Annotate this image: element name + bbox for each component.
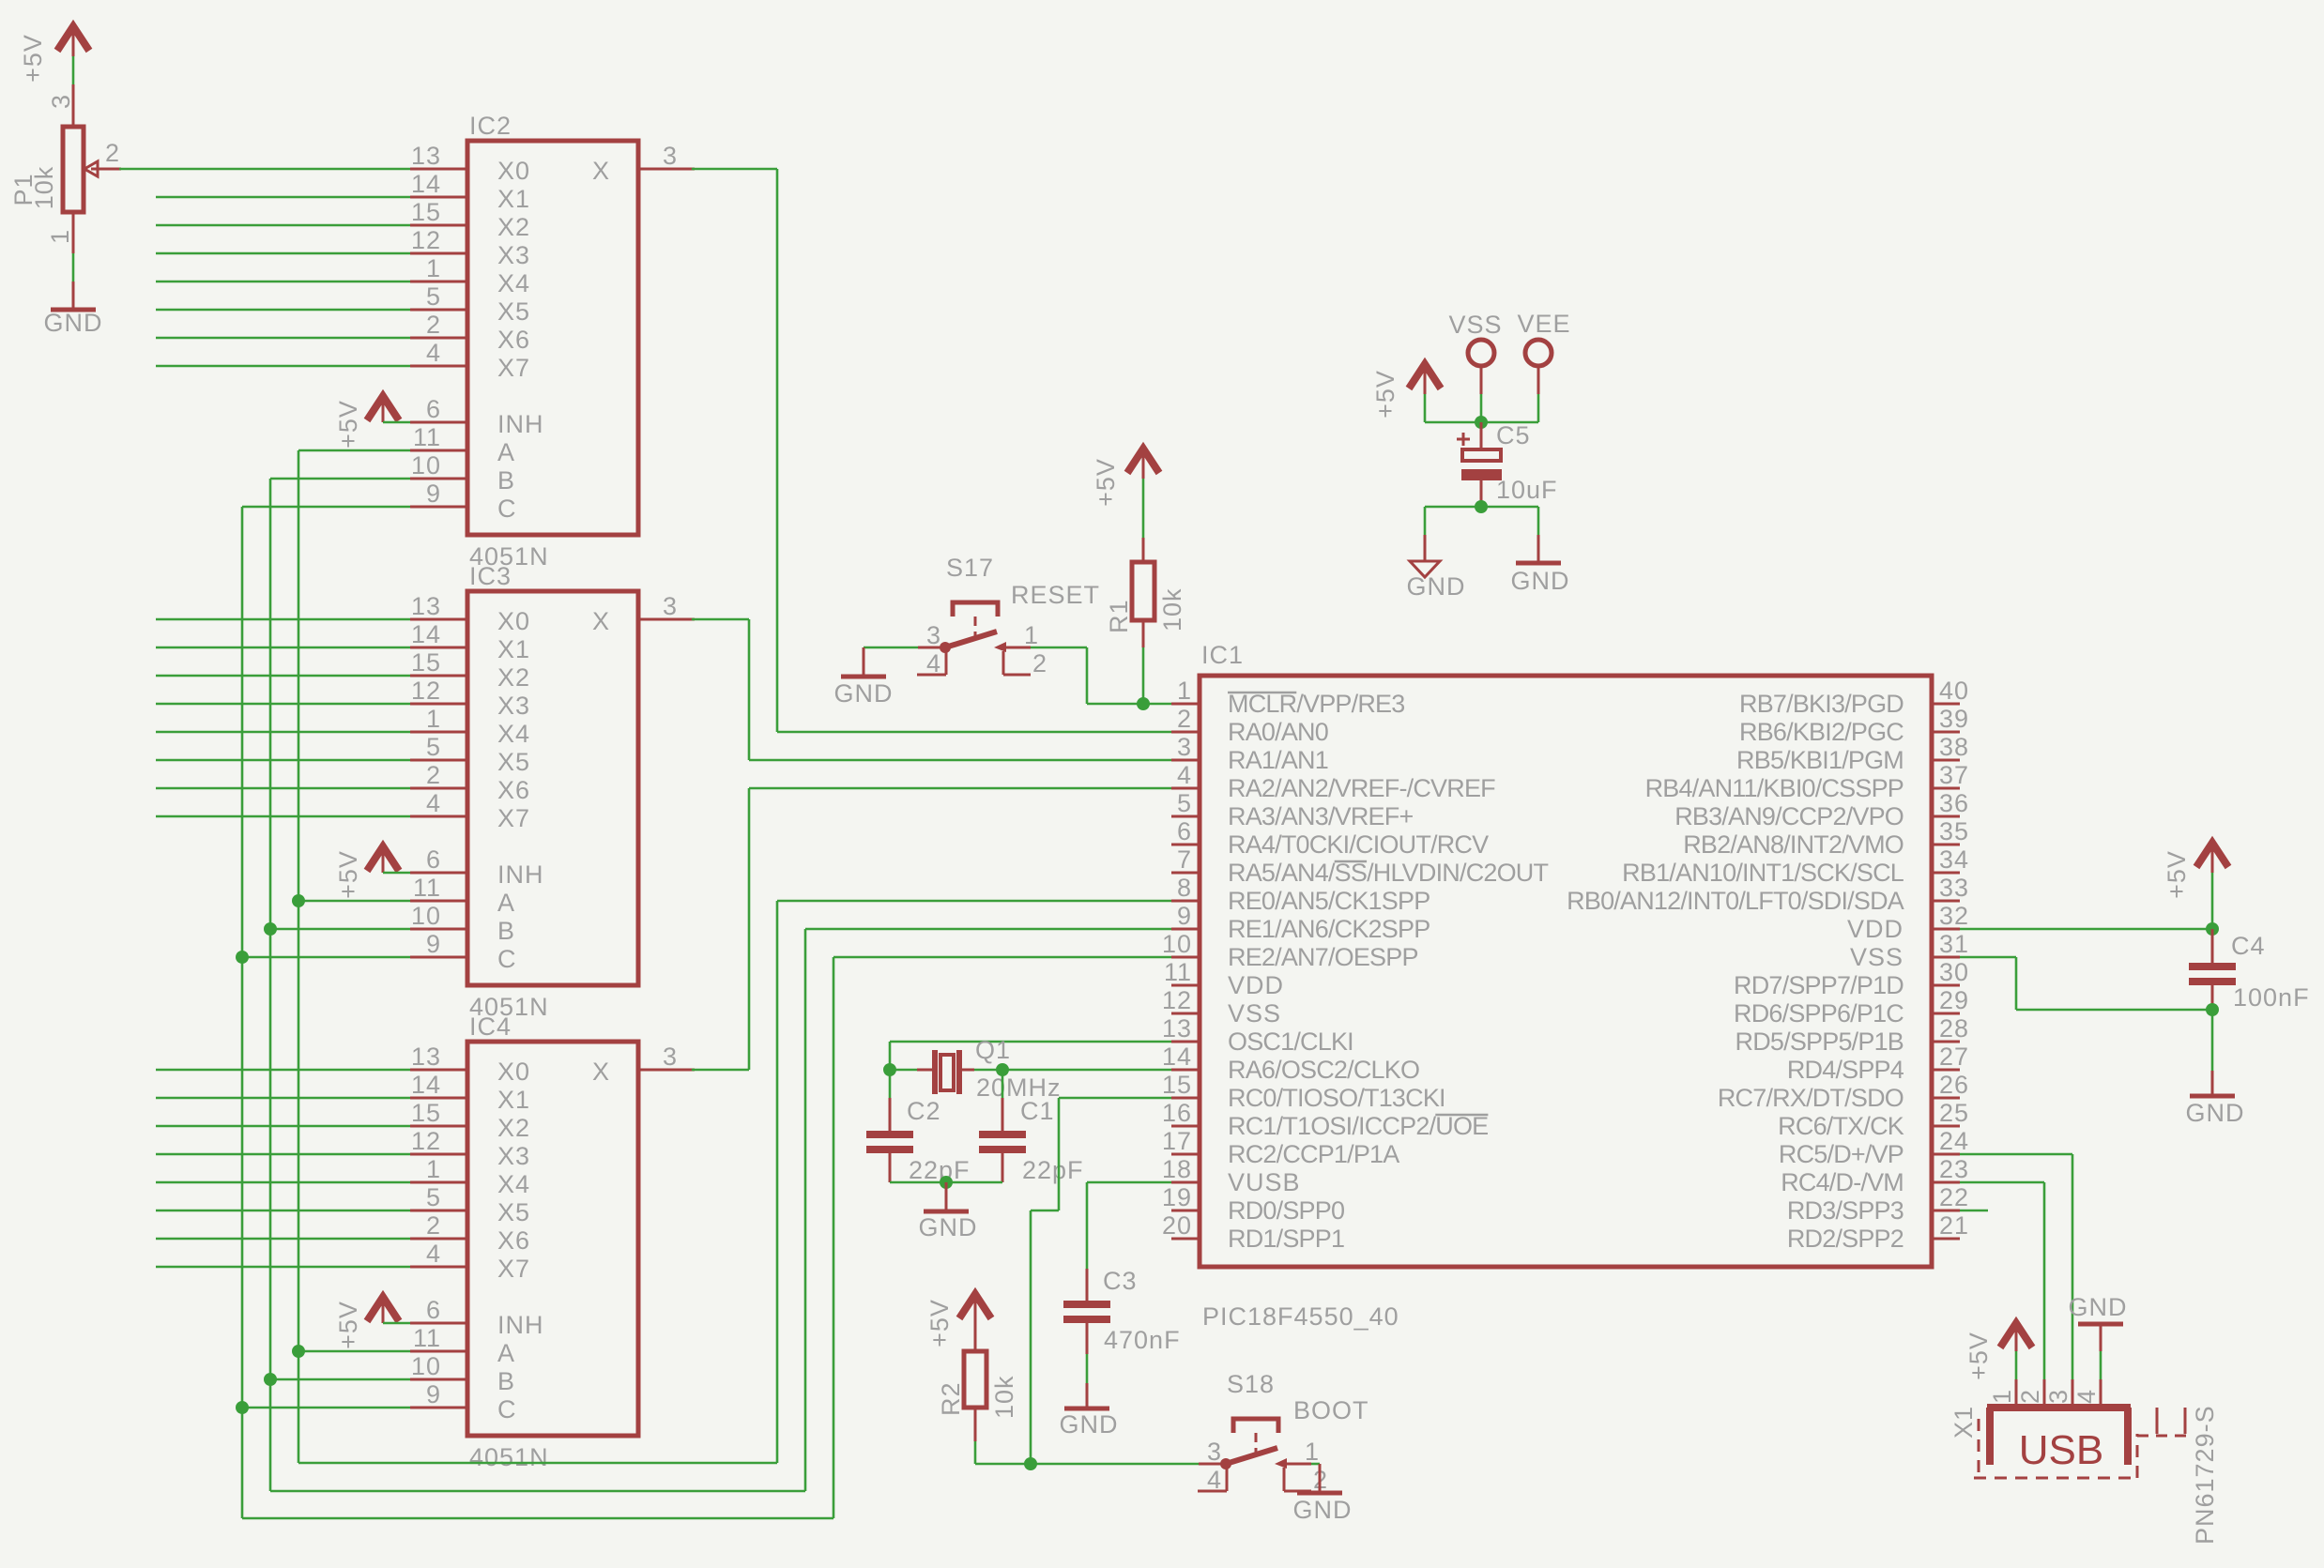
ground GND (USB) (2069, 1293, 2128, 1351)
svg-text:IC3: IC3 (469, 562, 512, 590)
svg-text:13: 13 (411, 1043, 441, 1071)
svg-text:X5: X5 (497, 748, 530, 776)
pin 12 (X3) (410, 226, 530, 269)
svg-text:RA6/OSC2/CLKO: RA6/OSC2/CLKO (1228, 1056, 1419, 1084)
svg-text:X5: X5 (497, 297, 530, 326)
pin 4 (X7) (410, 789, 530, 832)
node (C4 bottom) (2206, 1003, 2219, 1016)
svg-text:24: 24 (1939, 1127, 1969, 1155)
svg-text:RB3/AN9/CCP2/VPO: RB3/AN9/CCP2/VPO (1674, 802, 1904, 830)
svg-text:GND: GND (834, 679, 894, 708)
pin 5 (X5) (410, 1183, 530, 1226)
svg-text:15: 15 (411, 1099, 441, 1127)
pin 9 (C) (410, 480, 517, 523)
svg-text:15: 15 (411, 198, 441, 226)
svg-text:USB: USB (2019, 1427, 2103, 1473)
svg-text:2: 2 (1177, 705, 1192, 733)
pin 6 (RA4/T0CKI/CIOUT/RCV) (1171, 817, 1489, 859)
pin 1 (1287, 1438, 1320, 1466)
svg-text:10: 10 (411, 451, 441, 480)
pin 3 (X output) (592, 142, 695, 185)
wire (VSS/VEE/+5V to C5) (1425, 394, 1538, 422)
svg-text:GND: GND (1407, 572, 1466, 601)
pin 18 (VUSB) (1162, 1155, 1301, 1196)
svg-text:RC4/D-/VM: RC4/D-/VM (1781, 1168, 1904, 1196)
svg-text:+5V: +5V (1092, 458, 1120, 507)
pin 23 (RC4/D-/VM) (1781, 1155, 1969, 1196)
wire (RC5 D+ pin24 net) (1960, 1154, 2072, 1379)
pin 14 (X1) (410, 620, 530, 663)
svg-text:15: 15 (411, 648, 441, 677)
svg-text:RD2/SPP2: RD2/SPP2 (1787, 1225, 1904, 1253)
svg-text:S17: S17 (946, 554, 994, 582)
svg-text:9: 9 (426, 1380, 441, 1408)
svg-text:3: 3 (47, 94, 75, 109)
pin 37 (RB4/AN11/KBI0/CSSPP) (1645, 761, 1969, 802)
pin 40 (RB7/BKI3/PGD) (1739, 677, 1969, 718)
pin 10 (RE2/AN7/OESPP) (1162, 930, 1418, 971)
wire (RC0 pin15 net) (1031, 1098, 1171, 1464)
ground GND (bar) (1511, 535, 1570, 595)
pin 4 (X7) (410, 339, 530, 382)
svg-text:Q1: Q1 (975, 1036, 1011, 1064)
svg-text:32: 32 (1939, 902, 1969, 930)
svg-text:10uF: 10uF (1496, 476, 1558, 504)
svg-text:RC5/D+/VP: RC5/D+/VP (1779, 1140, 1904, 1168)
pin 1 (VBUS) (1988, 1379, 2016, 1408)
svg-text:RA2/AN2/VREF-/CVREF: RA2/AN2/VREF-/CVREF (1228, 774, 1495, 802)
node (C5 bottom junction) (1475, 500, 1488, 513)
svg-text:X3: X3 (497, 1142, 530, 1170)
svg-text:X1: X1 (497, 1086, 530, 1114)
svg-text:X4: X4 (497, 1170, 530, 1198)
svg-text:MCLR/VPP/RE3: MCLR/VPP/RE3 (1228, 690, 1404, 718)
svg-text:3: 3 (663, 142, 678, 170)
svg-text:X5: X5 (497, 1198, 530, 1226)
svg-text:12: 12 (411, 677, 441, 705)
pin 5 (RA3/AN3/VREF+) (1171, 789, 1413, 830)
svg-text:4: 4 (426, 1240, 441, 1268)
pin 36 (RB3/AN9/CCP2/VPO) (1674, 789, 1969, 830)
pin 3 (X output) (592, 592, 695, 635)
svg-text:VEE: VEE (1517, 310, 1570, 338)
svg-text:+5V: +5V (2163, 850, 2191, 899)
wire (P1 wiper to IC2 X0) (119, 168, 410, 171)
pin 4 (RA2/AN2/VREF-/CVREF) (1171, 761, 1495, 802)
svg-text:RC7/RX/DT/SDO: RC7/RX/DT/SDO (1718, 1084, 1904, 1112)
svg-text:23: 23 (1939, 1155, 1969, 1183)
IC IC3 (4051N) (410, 562, 695, 1021)
svg-text:6: 6 (1177, 817, 1192, 845)
svg-text:RD6/SPP6/P1C: RD6/SPP6/P1C (1734, 999, 1904, 1028)
switch S18 (1198, 1370, 1369, 1494)
pin 1 (MCLR/VPP/RE3) (1171, 677, 1404, 718)
pin 22 (RD3/SPP3) (1787, 1183, 1969, 1225)
pin 2 (X6) (410, 1211, 530, 1255)
svg-text:39: 39 (1939, 705, 1969, 733)
svg-text:40: 40 (1939, 677, 1969, 705)
svg-text:6: 6 (426, 845, 441, 874)
pin 16 (RC1/T1OSI/ICCP2/UOE) (1162, 1099, 1488, 1140)
node (C at IC3) (236, 951, 249, 964)
pin 15 (X2) (410, 648, 530, 692)
svg-text:30: 30 (1939, 958, 1969, 986)
svg-text:1: 1 (1988, 1389, 2016, 1404)
node (A at IC3) (292, 894, 305, 907)
pin 13 (OSC1/CLKI) (1162, 1014, 1353, 1056)
svg-text:12: 12 (411, 1127, 441, 1155)
svg-text:13: 13 (411, 142, 441, 170)
pin 5 (X5) (410, 733, 530, 776)
wire (IC3 INH net) (383, 872, 410, 875)
svg-text:RA1/AN1: RA1/AN1 (1228, 746, 1328, 774)
svg-text:10k: 10k (990, 1375, 1018, 1419)
pin 2 (D-) (2016, 1379, 2044, 1408)
wire (C1/C2 ground run) (890, 1181, 1002, 1184)
pin 28 (RD5/SPP5/P1B) (1735, 1014, 1970, 1056)
supply +5V (C4) (2163, 843, 2228, 899)
svg-text:C: C (497, 1395, 517, 1423)
svg-text:X3: X3 (497, 692, 530, 720)
pin 2 (X6) (410, 311, 530, 354)
svg-text:+5V: +5V (334, 1301, 362, 1349)
svg-text:+5V: +5V (1371, 370, 1399, 419)
svg-text:C1: C1 (1020, 1097, 1055, 1125)
capacitor C4 100nF (2189, 929, 2310, 1012)
wire (+5V to VDD junction) (2211, 873, 2214, 929)
svg-text:B: B (497, 466, 515, 495)
svg-text:X1: X1 (497, 635, 530, 663)
svg-text:INH: INH (497, 410, 544, 438)
node (XTAL1) (883, 1063, 896, 1076)
svg-text:C4: C4 (2231, 932, 2266, 960)
pin 3 (1199, 1438, 1226, 1466)
svg-text:11: 11 (1164, 958, 1192, 986)
svg-text:1: 1 (1177, 677, 1192, 705)
svg-text:X: X (592, 1058, 610, 1086)
svg-text:RA4/T0CKI/CIOUT/RCV: RA4/T0CKI/CIOUT/RCV (1228, 830, 1489, 859)
svg-text:14: 14 (411, 620, 441, 648)
pin 10 (B) (410, 902, 515, 945)
wire (R1 bottom to MCLR) (1142, 647, 1145, 704)
svg-text:22pF: 22pF (909, 1156, 971, 1184)
wire (VSS pin31 net) (1960, 957, 2212, 1010)
pin 6 (INH) (410, 845, 544, 889)
wire (VUSB pin18 net) (1087, 1182, 1171, 1269)
svg-text:B: B (497, 1367, 515, 1395)
pin 33 (RB0/AN12/INT0/LFT0/SDI/SDA) (1567, 874, 1969, 915)
svg-text:5: 5 (426, 282, 441, 311)
svg-text:VSS: VSS (1228, 999, 1281, 1028)
svg-text:GND: GND (44, 309, 103, 337)
wire (RD3 pin22 stub) (1960, 1210, 1988, 1212)
svg-text:10k: 10k (1158, 587, 1186, 632)
supply +5V (USB VBUS) (1965, 1323, 2032, 1380)
svg-text:+5V: +5V (925, 1299, 954, 1347)
pin 5 (X5) (410, 282, 530, 326)
wire (IC2 INH net) (383, 421, 410, 424)
svg-text:B: B (497, 917, 515, 945)
capacitor C5 10uF (1457, 421, 1558, 507)
svg-text:2: 2 (105, 139, 120, 167)
pin 9 (C) (410, 1380, 517, 1423)
svg-text:X: X (592, 157, 610, 185)
capacitor C3 470nF (1063, 1267, 1181, 1354)
ground GND (crystal) (919, 1182, 978, 1241)
svg-text:X6: X6 (497, 326, 530, 354)
svg-text:RE2/AN7/OESPP: RE2/AN7/OESPP (1228, 943, 1418, 971)
pin 15 (X2) (410, 198, 530, 241)
pin 35 (RB2/AN8/INT2/VMO) (1683, 817, 1969, 859)
svg-text:INH: INH (497, 860, 544, 889)
pin 13 (X0) (410, 592, 530, 635)
svg-text:4: 4 (426, 789, 441, 817)
svg-text:29: 29 (1939, 986, 1969, 1014)
pin 38 (RB5/KBI1/PGM) (1736, 733, 1969, 774)
node (boot junction) (1024, 1457, 1037, 1470)
svg-text:11: 11 (413, 1324, 441, 1352)
svg-text:X3: X3 (497, 241, 530, 269)
svg-text:4: 4 (926, 649, 941, 677)
svg-text:2: 2 (426, 311, 441, 339)
svg-text:17: 17 (1162, 1127, 1192, 1155)
wire (USB pin4 GND) (2100, 1351, 2102, 1379)
svg-text:X0: X0 (497, 1058, 530, 1086)
wire (S18 pin1 to GND) (1311, 1463, 1320, 1466)
pin 9 (RE1/AN6/CK2SPP) (1171, 902, 1430, 943)
svg-text:RC2/CCP1/P1A: RC2/CCP1/P1A (1228, 1140, 1399, 1168)
pin 29 (RD6/SPP6/P1C) (1734, 986, 1969, 1028)
pin 3 (918, 621, 945, 649)
ground GND (S17) (834, 647, 894, 708)
svg-text:RC1/T1OSI/ICCP2/UOE: RC1/T1OSI/ICCP2/UOE (1228, 1112, 1488, 1140)
wire (IC4 X out to IC1 RA2) (692, 788, 1171, 1070)
resistor R1 10k (1105, 538, 1186, 647)
svg-text:RC6/TX/CK: RC6/TX/CK (1778, 1112, 1904, 1140)
pin 1 (X4) (410, 1155, 530, 1198)
svg-text:BOOT: BOOT (1293, 1396, 1369, 1424)
pin 34 (RB1/AN10/INT1/SCK/SCL) (1622, 845, 1969, 887)
node (B at IC3) (264, 922, 277, 936)
svg-text:4: 4 (1207, 1466, 1222, 1494)
svg-text:10: 10 (411, 902, 441, 930)
pin 1 (1006, 621, 1039, 649)
svg-text:RD3/SPP3: RD3/SPP3 (1787, 1196, 1904, 1225)
svg-text:11: 11 (413, 423, 441, 451)
svg-text:10: 10 (411, 1352, 441, 1380)
pin 11 (A) (410, 423, 515, 466)
wire (Q1 to XTAL2) (974, 1069, 1002, 1072)
svg-text:X1: X1 (497, 185, 530, 213)
svg-text:1: 1 (1305, 1438, 1320, 1466)
pin 13 (X0) (410, 142, 530, 185)
pin 39 (RB6/KBI2/PGC) (1739, 705, 1969, 746)
wire (VDD pin32 net) (1960, 928, 2212, 931)
svg-text:VDD: VDD (1847, 915, 1904, 943)
svg-text:34: 34 (1939, 845, 1969, 874)
svg-text:S18: S18 (1227, 1370, 1275, 1398)
svg-text:X7: X7 (497, 354, 530, 382)
pin 15 (RC0/TIOSO/T13CKI) (1162, 1071, 1445, 1112)
svg-text:100nF: 100nF (2233, 983, 2310, 1012)
node (XTAL2) (996, 1063, 1009, 1076)
svg-text:1: 1 (426, 254, 441, 282)
pin 32 (VDD) (1847, 902, 1969, 943)
pin 24 (RC5/D+/VP) (1779, 1127, 1969, 1168)
pin 20 (RD1/SPP1) (1162, 1211, 1344, 1253)
node (C5 top junction) (1475, 416, 1488, 429)
svg-text:+5V: +5V (19, 34, 47, 83)
svg-text:18: 18 (1162, 1155, 1192, 1183)
IC U IC1 (PIC18F4550_40) (1162, 641, 1969, 1331)
supply +5V (R1) (1092, 449, 1159, 507)
wire (OSC2 pin14 net) (1002, 1069, 1171, 1072)
wire (IC4 INH net) (383, 1322, 410, 1325)
pin 13 (X0) (410, 1043, 530, 1086)
svg-text:4051N: 4051N (469, 1443, 549, 1471)
wire (C1 top) (1001, 1070, 1004, 1098)
pin 14 (X1) (410, 170, 530, 213)
svg-text:36: 36 (1939, 789, 1969, 817)
svg-text:C: C (497, 945, 517, 973)
pin 1 (X4) (410, 705, 530, 748)
ground GND (S18) (1293, 1464, 1353, 1524)
pin 6 (INH) (410, 395, 544, 438)
pin 1 (X4) (410, 254, 530, 297)
wire (C3 bottom) (1086, 1354, 1089, 1383)
svg-text:4: 4 (426, 339, 441, 367)
svg-text:5: 5 (1177, 789, 1192, 817)
pin 4 (X7) (410, 1240, 530, 1283)
svg-text:X7: X7 (497, 804, 530, 832)
pin 3 (D+) (2044, 1379, 2072, 1408)
svg-text:3: 3 (2044, 1389, 2072, 1404)
svg-text:12: 12 (411, 226, 441, 254)
wire net A-select (298, 450, 1171, 1463)
ground GND (triangle) (1407, 535, 1466, 601)
pin 14 (X1) (410, 1071, 530, 1114)
svg-text:RD0/SPP0: RD0/SPP0 (1228, 1196, 1344, 1225)
pin 26 (RC7/RX/DT/SDO) (1718, 1071, 1969, 1112)
svg-text:C3: C3 (1103, 1267, 1138, 1295)
svg-text:A: A (497, 438, 515, 466)
svg-text:X2: X2 (497, 1114, 530, 1142)
connector X1 USB (PN61729-S) (1949, 1379, 2219, 1545)
wire (IC2 X out to IC1 RA0) (692, 169, 1171, 732)
svg-text:X1: X1 (1949, 1406, 1978, 1439)
wire (P1 pin3 net) (72, 56, 75, 84)
supply +5V (IC4 INH) (334, 1297, 399, 1349)
svg-text:RC0/TIOSO/T13CKI: RC0/TIOSO/T13CKI (1228, 1084, 1445, 1112)
svg-text:RB6/KBI2/PGC: RB6/KBI2/PGC (1739, 718, 1904, 746)
svg-text:470nF: 470nF (1104, 1326, 1181, 1354)
svg-text:35: 35 (1939, 817, 1969, 845)
svg-text:13: 13 (411, 592, 441, 620)
svg-text:X7: X7 (497, 1255, 530, 1283)
svg-text:IC1: IC1 (1201, 641, 1244, 669)
svg-text:GND: GND (919, 1213, 978, 1241)
wire (C4 bottom to GND) (2211, 1010, 2214, 1071)
svg-text:31: 31 (1939, 930, 1969, 958)
svg-text:C: C (497, 495, 517, 523)
ground GND (C3) (1060, 1383, 1119, 1439)
svg-text:14: 14 (411, 170, 441, 198)
pin 15 (X2) (410, 1099, 530, 1142)
svg-text:3: 3 (1177, 733, 1192, 761)
pin 12 (VSS) (1162, 986, 1281, 1028)
svg-text:RB4/AN11/KBI0/CSSPP: RB4/AN11/KBI0/CSSPP (1645, 774, 1904, 802)
svg-text:C2: C2 (907, 1097, 941, 1125)
svg-text:PIC18F4550_40: PIC18F4550_40 (1202, 1302, 1399, 1331)
wire (XTAL1 to Q1) (890, 1069, 917, 1072)
pin 17 (RC2/CCP1/P1A) (1162, 1127, 1399, 1168)
svg-text:OSC1/CLKI: OSC1/CLKI (1228, 1028, 1353, 1056)
svg-text:2: 2 (426, 761, 441, 789)
pin 4 (1198, 1466, 1227, 1494)
wire net C-select (242, 507, 1171, 1518)
svg-text:RA3/AN3/VREF+: RA3/AN3/VREF+ (1228, 802, 1413, 830)
svg-text:IC2: IC2 (469, 112, 512, 140)
svg-text:RB1/AN10/INT1/SCK/SCL: RB1/AN10/INT1/SCK/SCL (1622, 859, 1904, 887)
svg-text:3: 3 (926, 621, 941, 649)
crystal Q1 20MHz (917, 1036, 1062, 1102)
pin 6 (INH) (410, 1296, 544, 1339)
pin 14 (RA6/OSC2/CLKO) (1162, 1043, 1419, 1084)
svg-text:RD7/SPP7/P1D: RD7/SPP7/P1D (1734, 971, 1904, 999)
resistor R2 10k (937, 1351, 1018, 1441)
svg-text:2: 2 (426, 1211, 441, 1240)
svg-text:21: 21 (1939, 1211, 1969, 1240)
svg-text:5: 5 (426, 733, 441, 761)
svg-text:7: 7 (1177, 845, 1192, 874)
wire (RC4 D- pin23 net) (1960, 1182, 2044, 1379)
svg-text:22: 22 (1939, 1183, 1969, 1211)
svg-text:6: 6 (426, 1296, 441, 1324)
svg-text:VSS: VSS (1448, 311, 1502, 339)
svg-text:RB7/BKI3/PGD: RB7/BKI3/PGD (1739, 690, 1904, 718)
svg-text:RESET: RESET (1011, 581, 1100, 609)
connector VSS (1448, 311, 1502, 394)
pin 25 (RC6/TX/CK) (1778, 1099, 1969, 1140)
capacitor C1 22pF (979, 1097, 1084, 1184)
pin 30 (RD7/SPP7/P1D) (1734, 958, 1969, 999)
svg-text:33: 33 (1939, 874, 1969, 902)
switch S17 (917, 554, 1100, 677)
svg-text:2: 2 (2016, 1389, 2044, 1404)
node (A at IC4) (292, 1345, 305, 1358)
svg-text:4: 4 (1177, 761, 1192, 789)
shield pins (2157, 1408, 2185, 1434)
svg-text:37: 37 (1939, 761, 1969, 789)
svg-text:9: 9 (426, 930, 441, 958)
svg-text:X4: X4 (497, 720, 530, 748)
svg-text:R2: R2 (937, 1381, 965, 1416)
svg-text:X0: X0 (497, 607, 530, 635)
pin 2 (1284, 1466, 1328, 1494)
ground GND (C4) (2186, 1071, 2245, 1127)
svg-text:PN61729-S: PN61729-S (2191, 1405, 2219, 1545)
svg-text:11: 11 (413, 874, 441, 902)
wire (R1 top) (1142, 479, 1145, 538)
pin 21 (RD2/SPP2) (1787, 1211, 1969, 1253)
wire (P1 pin1 to GND) (72, 253, 75, 282)
wire net B-select (270, 479, 1171, 1491)
svg-text:38: 38 (1939, 733, 1969, 761)
svg-text:4: 4 (2072, 1389, 2101, 1404)
wire (S17 pin3 to GND) (864, 647, 918, 649)
pin 7 (RA5/AN4/SS/HLVDIN/C2OUT) (1171, 845, 1549, 887)
svg-text:C5: C5 (1496, 421, 1531, 449)
